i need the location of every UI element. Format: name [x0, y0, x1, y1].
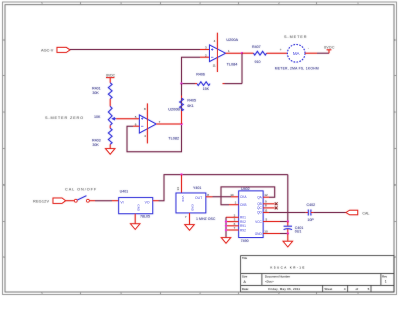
- resistor R401 30K: [92, 83, 112, 99]
- node reset junction 3: [225, 229, 227, 231]
- wire QD pin11 to C402: [263, 208, 306, 212]
- node output junction: [241, 52, 243, 54]
- regulator U401 78L05: [119, 189, 153, 218]
- svg-text:Document Number: Document Number: [265, 275, 290, 279]
- svg-text:10: 10: [264, 229, 268, 233]
- svg-text:CAL: CAL: [362, 211, 369, 215]
- ground below C401: [283, 234, 292, 247]
- node VCC junction: [287, 220, 289, 222]
- svg-text:CAL ON/OFF: CAL ON/OFF: [65, 187, 97, 191]
- wire QA to CKB loop: [221, 187, 275, 205]
- power 8VDC divider: [106, 74, 116, 83]
- svg-text:14: 14: [176, 187, 180, 191]
- wire QC no-connect pin8: [263, 204, 277, 210]
- port REG12V input: [33, 198, 66, 204]
- svg-text:10P: 10P: [307, 218, 314, 222]
- wire GND pin10 to rail: [263, 229, 288, 233]
- svg-text:QC: QC: [257, 206, 262, 210]
- svg-text:8VDC: 8VDC: [106, 74, 116, 78]
- wire U200A pin2 feedback input: [182, 57, 210, 124]
- wire C402 to CAL port: [313, 212, 346, 214]
- svg-text:12: 12: [264, 193, 268, 197]
- svg-text:+: +: [280, 48, 282, 52]
- port AGC-V input: [41, 47, 70, 52]
- wire AGC-V to U200A pin3: [70, 49, 210, 51]
- switch SW CAL: [74, 196, 89, 202]
- svg-text:R405: R405: [187, 99, 196, 103]
- power 8VDC right: [324, 45, 335, 53]
- svg-text:AGC-V: AGC-V: [41, 48, 54, 52]
- svg-text:S-METER: S-METER: [284, 35, 307, 39]
- svg-text:TL082: TL082: [168, 137, 179, 141]
- wire U401 VO to 5V rail: [153, 175, 288, 201]
- ground below reset pins: [221, 238, 230, 244]
- svg-text:U402: U402: [241, 187, 250, 191]
- wire Y401 OUT to U402 CKA: [206, 193, 239, 197]
- svg-text:GND: GND: [255, 232, 263, 236]
- svg-text:Size: Size: [242, 275, 248, 279]
- svg-text:A: A: [394, 255, 396, 259]
- svg-text:R407: R407: [252, 45, 261, 49]
- svg-text:K5UCA KR-1E: K5UCA KR-1E: [270, 266, 305, 270]
- svg-text:Friday, May 06, 2011: Friday, May 06, 2011: [268, 287, 300, 291]
- svg-text:30K: 30K: [92, 143, 99, 147]
- svg-text:11: 11: [213, 64, 216, 68]
- svg-text:Title: Title: [242, 256, 248, 260]
- op-amp U200A: [205, 33, 238, 72]
- svg-text:8VDC: 8VDC: [324, 45, 335, 49]
- svg-text:B: B: [3, 183, 5, 187]
- svg-text:CKB: CKB: [240, 203, 247, 207]
- resistor R407 910: [252, 45, 267, 64]
- svg-text:R406: R406: [196, 73, 205, 77]
- svg-text:B: B: [394, 183, 396, 187]
- svg-text:10K: 10K: [94, 115, 101, 119]
- svg-text:<Doc>: <Doc>: [265, 279, 274, 283]
- wire R401 to pot: [109, 99, 111, 107]
- wire switch to U401 VI: [89, 200, 118, 202]
- oscillator Y401 1 MHZ OSC: [176, 186, 216, 221]
- counter U402 7490: [239, 187, 263, 243]
- wire U402 reset pins: [226, 213, 239, 237]
- svg-text:7490: 7490: [241, 239, 249, 243]
- node reset junction 2: [225, 225, 227, 227]
- node U200B output junction: [180, 123, 182, 125]
- wire feedback to R406: [225, 83, 243, 85]
- wire U200B pin6 loop: [127, 124, 182, 152]
- capacitor C401 0U1: [284, 222, 304, 234]
- svg-text:VI: VI: [120, 200, 123, 204]
- wire U200B output: [156, 123, 181, 125]
- svg-text:C402: C402: [307, 203, 316, 207]
- svg-text:1 MHZ OSC: 1 MHZ OSC: [196, 217, 216, 221]
- svg-text:14: 14: [230, 193, 234, 197]
- svg-text:TL084: TL084: [227, 62, 238, 66]
- wire REG12V to switch: [66, 200, 75, 202]
- meter M uA S-METER: [275, 35, 319, 71]
- svg-text:78L05: 78L05: [140, 214, 150, 218]
- resistor R406 15K: [195, 73, 225, 91]
- resistor R403 30K: [92, 125, 112, 147]
- wire QB no-connect pin9: [263, 200, 277, 206]
- ground below R403: [106, 144, 115, 154]
- wire Y401 VCC stub pin14: [176, 175, 182, 193]
- svg-text:METER, 2MA FS, 1KOHM: METER, 2MA FS, 1KOHM: [275, 67, 319, 71]
- wire U200A output: [226, 52, 243, 54]
- svg-text:910: 910: [255, 60, 261, 64]
- wire pot wiper to U200B pin5: [116, 118, 139, 120]
- node GND junction: [287, 232, 289, 234]
- svg-text:R403: R403: [92, 139, 101, 143]
- svg-text:VCC: VCC: [255, 220, 262, 224]
- svg-text:15K: 15K: [203, 87, 210, 91]
- svg-text:U401: U401: [120, 189, 129, 193]
- svg-text:GND: GND: [191, 204, 195, 212]
- svg-text:R92: R92: [240, 228, 246, 232]
- wire output junction down: [241, 53, 243, 83]
- svg-text:U200A: U200A: [226, 38, 238, 42]
- op-amp U200B: [135, 103, 181, 143]
- svg-text:CKA: CKA: [240, 195, 247, 199]
- svg-text:Y401: Y401: [193, 186, 201, 190]
- wire VCC pin5 to rail: [263, 217, 288, 221]
- node reset junction 1: [225, 221, 227, 223]
- svg-text:A: A: [3, 255, 5, 259]
- potentiometer R402 10K: [94, 106, 116, 125]
- svg-text:QD: QD: [257, 211, 262, 215]
- port CAL output: [346, 210, 369, 215]
- node rail Y401 junction: [180, 173, 182, 175]
- wire R406 to node: [182, 83, 196, 85]
- wire meter to 8VDC: [305, 52, 329, 54]
- svg-text:of: of: [356, 287, 359, 291]
- resistor R405 6K1: [180, 84, 196, 124]
- svg-text:Sheet: Sheet: [324, 287, 332, 291]
- svg-text:VO: VO: [145, 200, 150, 204]
- TITLE BLOCK: [241, 256, 394, 292]
- svg-text:OUT: OUT: [195, 196, 202, 200]
- wire rail down to VCC: [287, 175, 289, 222]
- svg-text:Rev: Rev: [382, 275, 388, 279]
- svg-text:GND: GND: [136, 204, 140, 212]
- svg-text:MA: MA: [293, 51, 300, 56]
- svg-text:S-METER ZERO: S-METER ZERO: [45, 116, 84, 120]
- wire R407 to meter: [267, 52, 288, 54]
- svg-text:1: 1: [385, 280, 387, 284]
- svg-text:6K1: 6K1: [187, 104, 193, 108]
- svg-text:Date:: Date:: [242, 287, 249, 291]
- svg-text:R401: R401: [92, 87, 101, 91]
- ground below U401: [131, 214, 140, 230]
- node feedback junction: [180, 82, 182, 84]
- capacitor C402 10P: [306, 203, 315, 222]
- svg-text:30K: 30K: [92, 91, 99, 95]
- wire output to R407: [242, 52, 254, 54]
- svg-text:REG12V: REG12V: [33, 200, 49, 204]
- svg-text:U200B: U200B: [168, 108, 180, 112]
- ground below Y401 pin7: [185, 213, 194, 230]
- svg-text:11: 11: [264, 208, 267, 212]
- svg-text:0U1: 0U1: [295, 230, 302, 234]
- svg-text:VCC: VCC: [181, 196, 185, 203]
